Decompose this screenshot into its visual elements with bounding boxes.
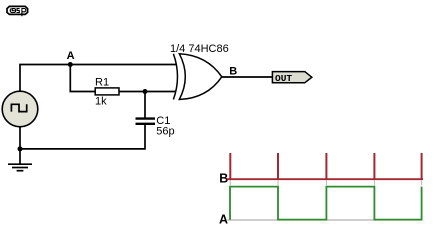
svg-text:R1: R1 (95, 76, 109, 88)
svg-text:B: B (229, 66, 237, 78)
plot B baseline (227, 178, 424, 180)
junction node R1/C1 (143, 89, 148, 94)
wire R1 to gate input 2 (119, 91, 176, 93)
plot B pulse 5 (421, 153, 423, 179)
wire node A down to R1 (70, 65, 95, 92)
node A (67, 50, 75, 67)
svg-text:56p: 56p (156, 126, 174, 138)
plot A waveform (230, 187, 422, 220)
xor gate U1 (173, 54, 221, 100)
wire gate output to OUT flag (222, 76, 273, 78)
voltage source V1 (2, 91, 38, 127)
wire C1 to ground rail (20, 125, 145, 149)
svg-text:1k: 1k (95, 96, 107, 108)
plot A baseline (228, 219, 423, 221)
plot B pulse 2 (277, 153, 279, 179)
wire V1 bottom to ground junction (19, 127, 21, 149)
wire V1 top to node A (20, 65, 70, 92)
plot transition ticks (230, 181, 421, 186)
svg-text:A: A (67, 50, 75, 62)
square wave glyph (11, 104, 26, 111)
svg-text:OUT: OUT (275, 73, 292, 84)
esp logo (7, 6, 28, 16)
plot B pulse 1 (229, 153, 231, 179)
OUT flag (272, 72, 311, 84)
resistor R1 (95, 76, 119, 107)
plot B pulse 3 (325, 153, 327, 179)
plot B pulse 4 (373, 153, 375, 179)
ground junction node (18, 146, 23, 151)
ground (8, 149, 32, 171)
svg-text:1/4 74HC86: 1/4 74HC86 (170, 43, 229, 55)
capacitor C1 (136, 115, 175, 138)
wire node A to gate input 1 (70, 64, 176, 66)
wire junction to C1 (144, 92, 146, 118)
svg-text:A: A (219, 213, 228, 227)
